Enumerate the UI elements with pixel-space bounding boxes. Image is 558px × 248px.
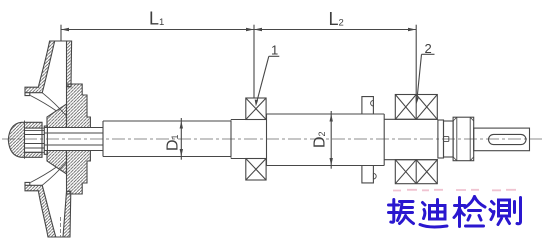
impeller hub left wedge top (hatched) (47, 104, 67, 128)
svg-text:D2: D2 (312, 131, 329, 148)
impeller hub flange top (hatched) (67, 84, 91, 128)
bearing 2 bottom squares (395, 160, 437, 184)
dimension L1 (61, 9, 254, 98)
impeller channel centerline bottom (dashed) (60, 217, 62, 237)
label 1 leader to bearing 1 (255, 43, 280, 107)
bearing 1 seat (246, 120, 267, 159)
bearing lock washer (438, 120, 444, 158)
impeller eye seal lip bottom (25, 182, 30, 185)
svg-text:1: 1 (271, 43, 278, 58)
shaft section S1 (D1 diameter) (103, 121, 181, 157)
watermark character jian (454, 197, 485, 227)
bearing locknut (444, 121, 454, 157)
bearing 1 bottom square (246, 159, 266, 181)
shaft section D2 (267, 114, 385, 166)
oil slinger tab bottom (362, 166, 376, 183)
impeller front shroud bottom (curved, hatched) (25, 185, 56, 237)
centerline shaft axis (2, 138, 542, 140)
dimension D2 (312, 111, 333, 169)
dimension D1 (165, 118, 184, 160)
shaft threaded end inside nut (25, 128, 45, 152)
shaft section S3 step (231, 120, 246, 159)
label 2 leader to bearing 2 (415, 41, 434, 105)
impeller front shroud top (curved, hatched) (25, 41, 55, 93)
impeller hub left wedge bottom (hatched) (47, 151, 67, 175)
impeller cap nut (hatched dome) (8, 121, 42, 159)
svg-text:L1: L1 (149, 9, 164, 29)
impeller blade leading edge lines top (30, 93, 66, 116)
impeller back shroud top strip (50, 41, 72, 87)
impeller blade leading edge lines bottom (30, 162, 66, 185)
impeller hub flange bottom (hatched) (67, 151, 91, 195)
svg-text:L2: L2 (329, 9, 344, 29)
shaft section S2 (181, 121, 231, 157)
bearing 1 top square (246, 98, 266, 120)
shaft end with keyway (474, 128, 530, 151)
watermark character zhen (389, 200, 414, 224)
impeller eye seal lip top (25, 93, 30, 96)
oil slinger tab top (362, 97, 374, 114)
watermark character ce (490, 198, 521, 225)
watermark red remnant (393, 189, 516, 192)
shaft threaded section through hub (44, 128, 103, 151)
cap nut washer (42, 122, 47, 157)
shaft collar (453, 117, 474, 161)
bearing 2 top squares (395, 95, 437, 120)
svg-text:D1: D1 (165, 134, 182, 151)
watermark character di (420, 200, 447, 227)
dimension L2 (254, 9, 416, 94)
impeller back shroud bottom strip (48, 191, 71, 237)
bearing 2 seat (384, 119, 438, 159)
